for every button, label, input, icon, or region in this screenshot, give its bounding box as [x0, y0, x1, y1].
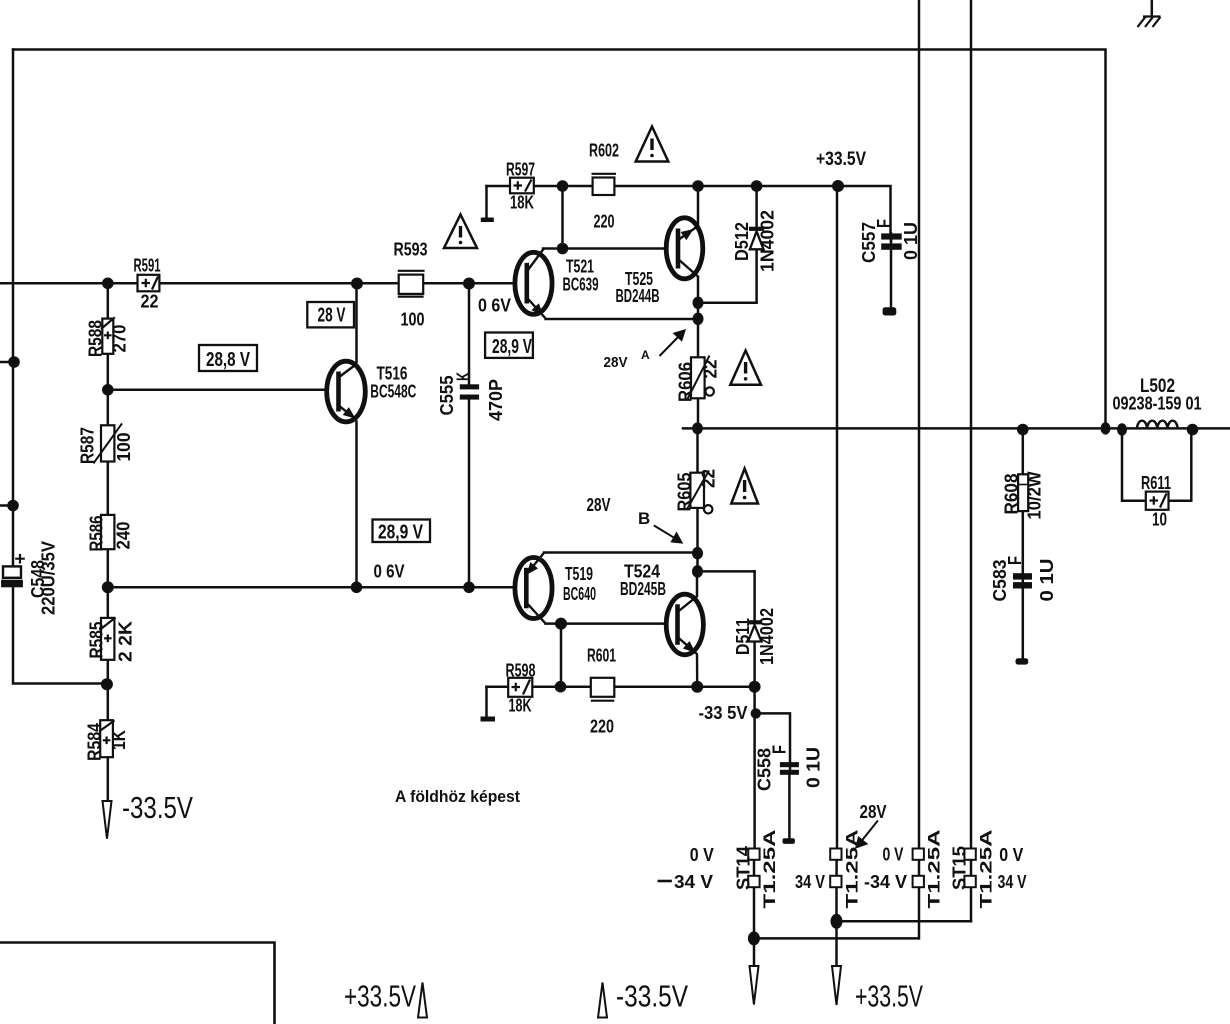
svg-text:T1.25A: T1.25A — [925, 830, 944, 909]
svg-text:22: 22 — [701, 360, 721, 379]
svg-text:R593: R593 — [394, 240, 428, 260]
svg-text:R602: R602 — [589, 141, 619, 161]
svg-text:R605: R605 — [675, 473, 695, 512]
svg-text:+33.5V: +33.5V — [816, 149, 866, 170]
svg-text:28V: 28V — [860, 802, 887, 822]
svg-text:34 V: 34 V — [795, 872, 825, 892]
svg-text:F: F — [874, 219, 894, 228]
svg-text:0 1U: 0 1U — [804, 747, 824, 788]
svg-text:ST14: ST14 — [734, 846, 754, 890]
svg-text:34 V: 34 V — [998, 872, 1027, 892]
svg-text:F: F — [770, 745, 790, 754]
svg-text:K: K — [454, 372, 474, 381]
svg-text:28V: 28V — [587, 495, 611, 515]
svg-text:220: 220 — [594, 212, 615, 232]
svg-text:100: 100 — [401, 310, 425, 330]
svg-text:ST15: ST15 — [950, 846, 970, 890]
svg-text:R588: R588 — [86, 320, 106, 357]
svg-text:R601: R601 — [587, 646, 616, 666]
svg-text:D512: D512 — [732, 222, 752, 261]
svg-text:09238-159 01: 09238-159 01 — [1113, 394, 1202, 414]
svg-text:22: 22 — [141, 292, 159, 312]
svg-text:-33 5V: -33 5V — [699, 703, 748, 723]
svg-text:T521: T521 — [566, 257, 594, 277]
svg-text:18K: 18K — [510, 193, 534, 213]
svg-text:270: 270 — [110, 325, 130, 353]
svg-text:2 2K: 2 2K — [116, 621, 136, 662]
svg-text:R591: R591 — [134, 256, 161, 276]
svg-text:T1.25A: T1.25A — [843, 830, 862, 909]
svg-text:28,9 V: 28,9 V — [492, 336, 532, 358]
svg-text:+33.5V: +33.5V — [855, 979, 923, 1014]
svg-text:0 V: 0 V — [999, 845, 1023, 865]
svg-text:240: 240 — [114, 522, 134, 550]
svg-text:R587: R587 — [78, 427, 98, 464]
svg-text:A földhöz képest: A földhöz képest — [395, 787, 520, 806]
svg-text:R586: R586 — [87, 516, 107, 552]
svg-text:100: 100 — [114, 433, 134, 462]
svg-text:T1.25A: T1.25A — [760, 830, 779, 909]
svg-text:34 V: 34 V — [674, 872, 713, 892]
svg-text:-34 V: -34 V — [864, 872, 907, 892]
svg-text:A: A — [641, 348, 650, 362]
svg-text:0 V: 0 V — [883, 845, 904, 865]
svg-text:BD244B: BD244B — [616, 286, 660, 306]
svg-text:28 V: 28 V — [318, 305, 346, 327]
svg-text:28,8 V: 28,8 V — [206, 349, 250, 371]
svg-text:1K: 1K — [109, 730, 129, 750]
svg-text:1N4002: 1N4002 — [757, 608, 777, 665]
svg-text:T516: T516 — [377, 364, 408, 384]
svg-text:B: B — [638, 509, 650, 528]
svg-text:BD245B: BD245B — [620, 579, 666, 599]
svg-text:+33.5V: +33.5V — [344, 979, 416, 1014]
svg-text:BC640: BC640 — [563, 584, 596, 604]
svg-text:R611: R611 — [1141, 473, 1171, 493]
svg-text:R608: R608 — [1002, 474, 1022, 515]
svg-text:0 1U: 0 1U — [901, 222, 921, 260]
svg-text:28V: 28V — [604, 354, 628, 371]
svg-text:R598: R598 — [506, 661, 536, 681]
svg-text:T519: T519 — [565, 564, 593, 584]
svg-text:0 6V: 0 6V — [374, 562, 405, 582]
svg-text:-33.5V: -33.5V — [122, 790, 193, 825]
svg-text:R606: R606 — [676, 362, 696, 402]
svg-text:28,9 V: 28,9 V — [378, 522, 424, 544]
svg-text:22: 22 — [699, 469, 719, 488]
svg-text:0 6V: 0 6V — [478, 296, 511, 316]
svg-text:0 V: 0 V — [690, 845, 714, 865]
svg-text:R585: R585 — [87, 622, 107, 659]
svg-text:220: 220 — [590, 717, 614, 737]
svg-text:F: F — [1005, 556, 1025, 565]
svg-text:-33.5V: -33.5V — [616, 979, 688, 1014]
svg-text:0 1U: 0 1U — [1037, 559, 1057, 602]
svg-text:220U/35V: 220U/35V — [39, 541, 59, 615]
svg-text:BC548C: BC548C — [370, 382, 416, 402]
svg-text:R597: R597 — [506, 160, 535, 180]
svg-text:BC639: BC639 — [563, 275, 599, 295]
svg-text:T1.25A: T1.25A — [977, 830, 996, 909]
svg-text:R584: R584 — [85, 723, 105, 761]
svg-text:10/2W: 10/2W — [1025, 471, 1045, 519]
svg-text:18K: 18K — [509, 696, 532, 716]
svg-text:D511: D511 — [733, 618, 753, 655]
svg-text:470P: 470P — [486, 379, 506, 421]
svg-text:1N4002: 1N4002 — [758, 210, 778, 272]
svg-text:10: 10 — [1152, 510, 1167, 530]
